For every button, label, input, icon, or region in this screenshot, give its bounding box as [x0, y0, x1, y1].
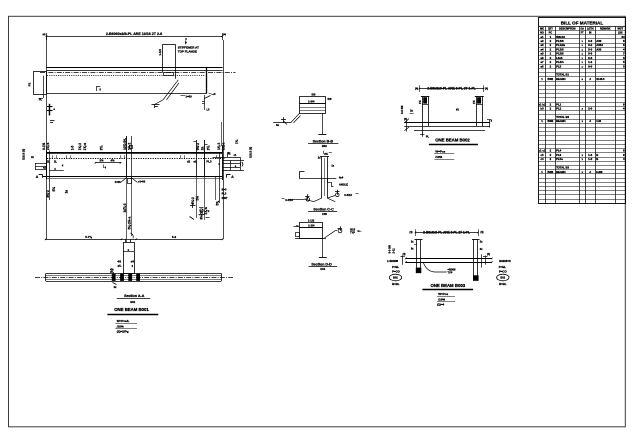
beam B003 weight notes: [437, 292, 455, 307]
elevation right stiffener pair: [194, 140, 208, 177]
svg-text:1½·2: 1½·2: [127, 143, 131, 150]
svg-text:B02: B02: [322, 144, 327, 148]
svg-text:DWT: DWT: [222, 196, 228, 200]
beam B003 left end marks: [387, 245, 407, 265]
left end plate in plan: [28, 72, 47, 102]
elevation dim line 3-4 left of center: [95, 159, 122, 170]
elevation left weld detail lines: [31, 156, 46, 170]
svg-text:10¾·5⅝: 10¾·5⅝: [123, 138, 127, 150]
svg-text:A: A: [589, 120, 591, 123]
beam B003 right end marks: [483, 253, 511, 265]
svg-text:0-6: 0-6: [588, 64, 592, 68]
beam B001 plan view outline: [40, 67, 236, 94]
svg-text:(4): (4): [487, 253, 490, 256]
svg-text:P=EL: P=EL: [499, 265, 506, 269]
svg-text:TOTAL B1: TOTAL B1: [556, 73, 569, 77]
svg-text:d4: d4: [131, 259, 135, 263]
svg-text:1a: 1a: [64, 190, 68, 194]
svg-text:4-16: 4-16: [596, 120, 601, 123]
svg-text:(4): (4): [404, 118, 407, 121]
svg-text:(4): (4): [403, 253, 406, 256]
svg-text:PL: PL: [426, 136, 430, 139]
svg-text:P=CO: P=CO: [499, 270, 508, 274]
section D-D weld leader right: [324, 226, 362, 238]
svg-text:1⅝·2: 1⅝·2: [78, 143, 82, 150]
svg-text:5/8: 5/8: [328, 97, 332, 101]
BOM header row: [540, 27, 623, 34]
svg-text:318.5 (5): 318.5 (5): [249, 147, 253, 158]
BOM beam B003 item rows: [539, 149, 626, 161]
beam B003 left stud channel: [411, 240, 423, 274]
svg-text:3¼: 3¼: [206, 146, 210, 151]
BOM beam B001 item rows: [540, 35, 625, 69]
beam B003 right connection labels: [497, 265, 509, 286]
section D-D plates: [294, 223, 327, 239]
section B-B weld leader: [273, 113, 300, 127]
svg-text:/10%: /10%: [438, 297, 445, 301]
svg-text:BEAM4: BEAM4: [556, 77, 566, 81]
plan dim texts below beam: [181, 92, 217, 99]
svg-text:P=EL: P=EL: [392, 265, 399, 269]
BOM beam B002 totals: [541, 115, 601, 123]
svg-text:PL5: PL5: [556, 64, 562, 68]
svg-text:C03: C03: [322, 212, 327, 216]
svg-text:B003: B003: [548, 171, 554, 174]
svg-text:A: A: [589, 171, 591, 174]
svg-text:PL3: PL3: [206, 160, 212, 164]
plan small flag on hidden line: [97, 86, 102, 92]
svg-text:5½: 5½: [195, 196, 199, 201]
extension lines below elevation: [127, 177, 205, 243]
elevation left end verticals: [47, 151, 50, 201]
svg-text:MK: MK: [540, 27, 544, 30]
note STIFFENER AT TOP FLANGE: [178, 45, 199, 53]
section D-D center mark: [319, 238, 327, 258]
svg-text:(2)=2/Pg: (2)=2/Pg: [117, 330, 129, 334]
center stiffener in section A-A: [123, 233, 135, 274]
svg-text:2-11: 2-11: [392, 248, 396, 254]
svg-text:+1=60: +1=60: [138, 180, 146, 184]
svg-text:B002: B002: [548, 120, 554, 123]
svg-text:10¾·3: 10¾·3: [123, 203, 127, 212]
svg-text:B001: B001: [548, 78, 554, 81]
svg-text:5-2: 5-2: [172, 235, 177, 239]
ONE BEAM B002 title: [429, 138, 478, 145]
svg-text:PL3: PL3: [222, 192, 227, 196]
svg-text:1-3/4: 1-3/4: [308, 100, 315, 104]
svg-text:3-0 5/8: 3-0 5/8: [400, 105, 404, 114]
svg-text:ONE BEAM B001: ONE BEAM B001: [114, 307, 149, 312]
stiffener plate in plan: [162, 44, 175, 78]
svg-text:PL5a: PL5a: [556, 157, 563, 161]
svg-text:2-0: 2-0: [588, 107, 592, 111]
section C-C left weld leader: [282, 194, 314, 202]
svg-text:d2: d2: [187, 159, 191, 163]
Section A-A label: [117, 294, 150, 304]
vertical dim texts below elevation: [46, 187, 220, 230]
plan view extension lines: [47, 36, 224, 239]
svg-text:5/8: 5/8: [312, 93, 316, 97]
elevation right end verticals: [216, 145, 223, 203]
beam B002 top dimension line: [415, 85, 488, 92]
svg-text:3-3/16: 3-3/16: [344, 193, 352, 197]
svg-text:3½: 3½: [100, 159, 105, 163]
ONE BEAM B001 title: [107, 307, 158, 314]
svg-text:B=BL: B=BL: [392, 282, 400, 286]
beam B002 weight notes: [434, 149, 454, 159]
svg-text:b3: b3: [540, 107, 544, 111]
BOM beam B003 totals: [541, 166, 603, 174]
svg-text:1-5: 1-5: [71, 145, 75, 150]
svg-text:2a: 2a: [200, 147, 204, 151]
svg-text:Section B-B: Section B-B: [313, 140, 334, 144]
svg-text:/10%: /10%: [117, 324, 124, 328]
svg-text:ONE BEAM B003: ONE BEAM B003: [430, 283, 465, 288]
svg-text:(4): (4): [415, 88, 418, 91]
svg-text:ONE BEAM B002: ONE BEAM B002: [435, 138, 470, 143]
svg-text:P=CO: P=CO: [392, 270, 401, 274]
svg-text:/10%: /10%: [435, 155, 442, 159]
stiffener note leader arrow: [185, 38, 188, 44]
beam B002 horizontal plate: [404, 123, 490, 131]
svg-text:B=3: B=3: [222, 188, 227, 192]
section B-B center mark: [318, 113, 326, 134]
svg-text:B01: B01: [130, 300, 135, 304]
beam B003 horizontal plate: [406, 259, 492, 263]
svg-text:(4): (4): [410, 231, 413, 234]
svg-text:W=Pcs: W=Pcs: [435, 149, 445, 153]
svg-text:5¼: 5¼: [52, 187, 56, 192]
svg-text:5½·2: 5½·2: [196, 143, 200, 150]
Section B-B label: [308, 140, 338, 149]
svg-text:PL: PL: [39, 97, 43, 101]
svg-text:B01: B01: [393, 276, 398, 280]
Section C-C label: [308, 208, 337, 216]
svg-text:2½: 2½: [324, 152, 327, 156]
section C-C horizontal flange line: [299, 172, 336, 179]
elevation small dim line left end: [49, 168, 64, 171]
svg-text:TYP: TYP: [350, 231, 355, 235]
svg-text:(2)=4: (2)=4: [437, 303, 444, 307]
svg-text:a2: a2: [193, 159, 197, 163]
svg-text:1-1/2: 1-1/2: [158, 49, 162, 56]
svg-text:c4: c4: [540, 157, 544, 161]
svg-text:5-7⅛: 5-7⅛: [85, 235, 92, 239]
elevation V weld mark at center bottom: [115, 178, 146, 184]
svg-text:2-B8x8x0-PL ARE 3-PL 2T 1-PL: 2-B8x8x0-PL ARE 3-PL 2T 1-PL: [423, 231, 470, 235]
beam B002 stiffener verticals top: [459, 176, 461, 178]
svg-text:ANGLE: ANGLE: [339, 182, 348, 186]
svg-text:1=60: 1=60: [115, 180, 121, 184]
svg-text:1-1/4: 1-1/4: [308, 224, 315, 228]
svg-text:8½·2: 8½·2: [46, 190, 50, 197]
svg-text:REMARK: REMARK: [600, 27, 611, 30]
svg-text:3-0 5/8: 3-0 5/8: [387, 245, 391, 254]
svg-text:BEAM4: BEAM4: [556, 170, 566, 174]
svg-text:BEAM4: BEAM4: [556, 119, 566, 123]
svg-text:Section A-A: Section A-A: [124, 294, 145, 298]
section C-C vertical plate: [320, 156, 329, 198]
svg-text:TOP FLANGE: TOP FLANGE: [178, 49, 197, 53]
section A-A stiffener dim texts: [110, 259, 134, 289]
svg-text:Section D-D: Section D-D: [311, 263, 332, 267]
section cut marker A right: [227, 174, 235, 179]
bill of material table: [539, 18, 626, 204]
ONE BEAM B003 title: [422, 283, 473, 290]
svg-text:(4): (4): [43, 33, 46, 36]
elevation hidden line (web centerline): [47, 158, 225, 160]
bottom dimension line: [45, 235, 223, 240]
svg-text:A: A: [589, 78, 591, 81]
section C-C clip angle right: [327, 176, 348, 187]
svg-text:QTY: QTY: [548, 27, 553, 30]
svg-text:(4): (4): [223, 33, 226, 36]
elevation center stiffener: [127, 136, 133, 178]
svg-text:L=B0208: L=B0208: [387, 259, 399, 263]
svg-text:Section C-C: Section C-C: [313, 208, 334, 212]
svg-text:LGTH: LGTH: [587, 27, 594, 30]
svg-text:IN: IN: [589, 32, 592, 35]
svg-text:GA: GA: [580, 27, 584, 30]
svg-text:2⅞·a: 2⅞·a: [83, 143, 87, 150]
svg-text:W=Pcs/L: W=Pcs/L: [117, 319, 130, 323]
BOM beam B001 totals: [541, 73, 605, 81]
section D-D dim texts: [308, 219, 315, 228]
small weld symbols below elevation: [190, 203, 210, 220]
vertical dim texts above elevation: [42, 138, 239, 150]
beam B003 left connection labels: [389, 265, 401, 286]
plan view top dimension line: [43, 32, 226, 40]
svg-text:1=60: 1=60: [185, 95, 192, 99]
svg-text:2L: 2L: [54, 160, 58, 164]
BOM beam B002 item rows: [538, 102, 625, 110]
svg-text:B01: B01: [500, 276, 505, 280]
svg-text:PL2: PL2: [556, 107, 562, 111]
right stacked labels below elevation: [222, 188, 228, 200]
svg-text:2L: 2L: [47, 160, 51, 164]
svg-text:2-B8x8x0-PL ARE 3-PL 2T 1-PL: 2-B8x8x0-PL ARE 3-PL 2T 1-PL: [427, 87, 475, 91]
svg-text:B: B: [596, 157, 598, 161]
svg-text:3¼: 3¼: [99, 146, 103, 151]
svg-text:318.5 (5): 318.5 (5): [22, 149, 26, 160]
Section D-D label: [309, 263, 338, 271]
svg-text:2⅞: 2⅞: [234, 139, 238, 144]
svg-text:P2: P2: [28, 82, 32, 86]
svg-text:BILL OF MATERIAL: BILL OF MATERIAL: [561, 20, 604, 25]
beam B003 right stud channel: [472, 240, 483, 281]
beam B003 top dimension line: [410, 229, 484, 236]
bottom flange plan band: [35, 273, 233, 281]
svg-text:a8: a8: [540, 64, 544, 68]
beam B001 weight notes: [115, 319, 137, 334]
weld cross symbol at left extension line: [47, 104, 56, 123]
beam B002 left stud channel: [420, 96, 430, 139]
section C-C bottom V weld: [314, 198, 336, 202]
section cut marker A left: [36, 175, 43, 180]
stiffener hatch through flange: [112, 274, 140, 281]
svg-text:TOTAL B3: TOTAL B3: [556, 166, 569, 170]
svg-text:1-0: 1-0: [588, 157, 592, 161]
svg-text:2⅞·a: 2⅞·a: [221, 143, 225, 150]
svg-text:DESCRIPTION: DESCRIPTION: [559, 27, 576, 30]
beam B001 elevation bottom flange: [43, 177, 223, 179]
section C-C right weld leader: [327, 190, 358, 198]
svg-text:TYP: TYP: [448, 272, 453, 275]
svg-text:B=BL: B=BL: [499, 282, 507, 286]
svg-text:(4): (4): [485, 88, 488, 91]
svg-text:2⅞·a: 2⅞·a: [46, 143, 50, 150]
svg-text:1⅝·2: 1⅝·2: [217, 143, 221, 150]
beam B002 right stud channel: [456, 96, 484, 126]
svg-text:5⅛·2½·a: 5⅛·2½·a: [127, 217, 131, 230]
beam B001 elevation top flange: [47, 153, 223, 154]
weld flag below plan right end: [202, 95, 211, 112]
svg-text:TOTAL B2: TOTAL B2: [556, 115, 569, 119]
right side connection detail box: [213, 153, 245, 171]
stitch weld tick marks on web line: [43, 155, 220, 169]
svg-text:2-B6060x3/8-PL ARE 13/16 2T 2-: 2-B6060x3/8-PL ARE 13/16 2T 2-6: [106, 32, 162, 36]
svg-text:A36: A36: [596, 47, 602, 51]
svg-text:3-3/16: 3-3/16: [285, 198, 293, 202]
beam B002 right end marks: [487, 120, 493, 128]
svg-text:10-60-6: 10-60-6: [596, 78, 605, 81]
beam B002 channel side dims: [418, 100, 476, 104]
weld symbol below plan right portion: [152, 80, 179, 108]
section B-B dim texts: [308, 93, 332, 104]
beam B002 left end marks: [400, 105, 414, 131]
svg-text:4x4: 4x4: [339, 176, 344, 180]
svg-text:D04: D04: [320, 267, 325, 271]
beam B003 curved leader: [424, 263, 456, 275]
svg-text:WGT: WGT: [617, 27, 623, 30]
svg-text:W=Pcs: W=Pcs: [438, 292, 448, 296]
svg-text:(4): (4): [480, 231, 483, 234]
section B-B flange plates: [299, 97, 325, 114]
svg-text:B0208=R: B0208=R: [499, 259, 510, 263]
svg-text:4½: 4½: [111, 159, 116, 163]
svg-text:6-200: 6-200: [596, 171, 603, 174]
section C-C top dim marks: [318, 151, 335, 168]
svg-text:5⅝: 5⅝: [215, 201, 219, 206]
svg-text:1-1/2: 1-1/2: [308, 219, 315, 223]
